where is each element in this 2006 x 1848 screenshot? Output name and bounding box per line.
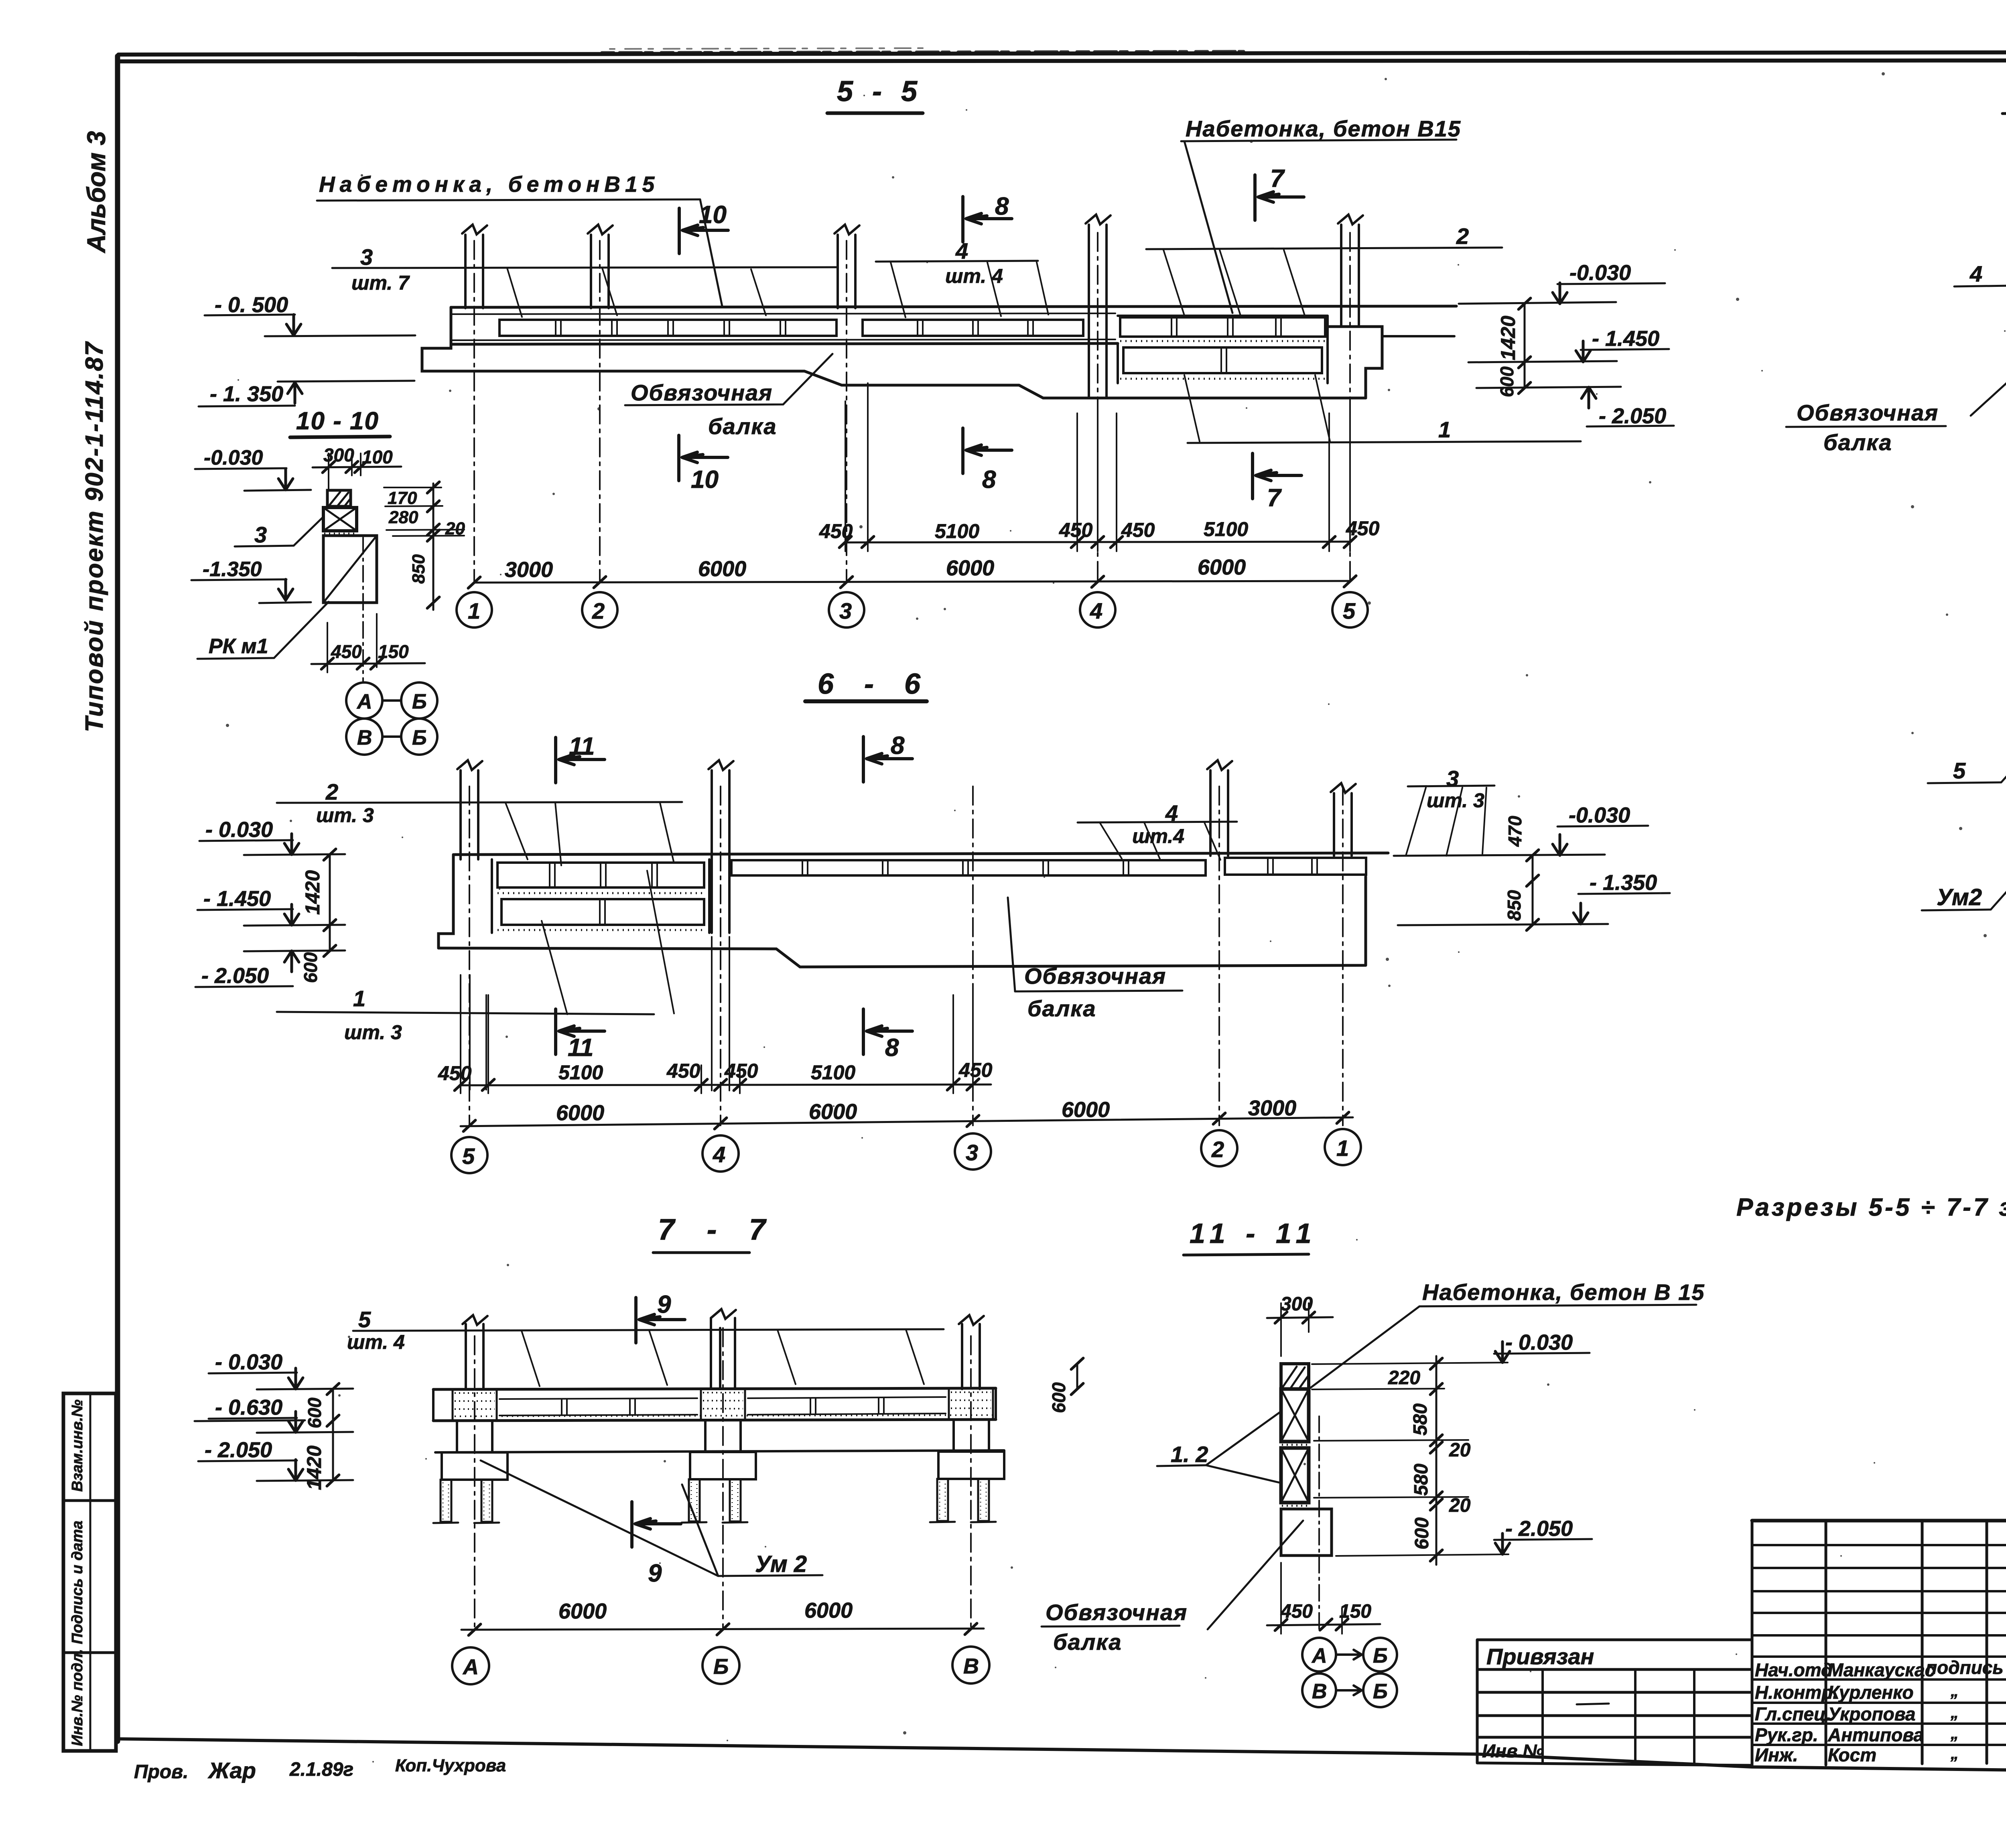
column head blocks in slab [453, 1388, 993, 1421]
axis bubbles А Б / В Б (11-11) [1302, 1638, 1336, 1671]
svg-text:1: 1 [1438, 417, 1451, 442]
svg-text:шт. 4: шт. 4 [945, 265, 1003, 287]
svg-text:Альбом 3: Альбом 3 [82, 131, 111, 254]
svg-text:11 - 11: 11 - 11 [1190, 1218, 1318, 1249]
grid bubble 1 (6-6) [1325, 1129, 1361, 1165]
grid axis line 2 [599, 241, 601, 582]
level mark -1.350 [210, 382, 283, 406]
title 5-5 [837, 75, 923, 108]
column on axis 5 [1341, 225, 1359, 327]
svg-text:Набетонка, бетонВ15: Набетонка, бетонВ15 [319, 172, 659, 197]
grid axis line 4 [1097, 233, 1098, 582]
section mark 9 top [636, 1298, 685, 1343]
slab top flange line [451, 313, 1115, 314]
svg-text:Подпись и дата: Подпись и дата [69, 1521, 86, 1644]
title 10-10 [296, 407, 379, 435]
svg-text:450: 450 [1059, 519, 1093, 541]
svg-text:10: 10 [691, 466, 719, 493]
svg-text:Коп.Чухрова: Коп.Чухрова [395, 1756, 506, 1775]
svg-text:Укропова: Укропова [1828, 1704, 1915, 1724]
svg-text:8: 8 [885, 1034, 899, 1062]
svg-text:600: 600 [1411, 1517, 1433, 1549]
svg-text:600: 600 [1496, 366, 1517, 397]
footing slab axis Б [690, 1452, 756, 1479]
vertical dim 850 right 6-6 [1532, 881, 1534, 925]
svg-text:- 0.630: - 0.630 [215, 1395, 282, 1420]
column on axis 5 [461, 770, 478, 859]
grid axis line 5 [1349, 233, 1351, 582]
dim 300/100 top [323, 445, 393, 467]
svg-text:4: 4 [1969, 261, 1982, 286]
svg-text:Инв.№: Инв.№ [1482, 1740, 1544, 1761]
dim row 6000/6000 (7-7) [461, 1629, 984, 1630]
svg-text:- 0.030: - 0.030 [205, 818, 273, 842]
svg-text:470: 470 [1504, 816, 1525, 847]
pos.3 leader with count [1427, 766, 1484, 812]
svg-text:Ум2: Ум2 [1937, 884, 1982, 910]
svg-text:10 - 10: 10 - 10 [296, 407, 379, 435]
svg-text:7: 7 [1267, 484, 1282, 512]
svg-text:А: А [1311, 1644, 1327, 1667]
svg-text:3000: 3000 [1248, 1096, 1296, 1120]
pos.2 leader [1456, 223, 1469, 249]
pos.4 label (8-8) [1969, 261, 1982, 286]
svg-text:5: 5 [1953, 758, 1966, 783]
svg-text:балка: балка [708, 414, 777, 439]
vertical dim 1420 (7-7) [332, 1421, 334, 1480]
grid axis 1 [1342, 786, 1344, 1125]
svg-text:балка: балка [1027, 996, 1096, 1021]
svg-text:Б: Б [412, 690, 427, 713]
svg-text:Обвязочная: Обвязочная [1046, 1600, 1188, 1625]
svg-text:6000: 6000 [556, 1101, 604, 1125]
grid bubble 3 (6-6) [955, 1133, 991, 1170]
piles axis В [937, 1479, 948, 1521]
grid bubble А (7-7) [452, 1647, 489, 1684]
dim 300 (11-11) [1281, 1294, 1313, 1315]
slab top line 7-7 [433, 1388, 996, 1389]
section mark 11 bottom [556, 1009, 605, 1054]
bay 4-5 bottom stipple [1120, 378, 1326, 380]
svg-text:1: 1 [468, 598, 480, 623]
topping hatch block (10-10) [327, 490, 351, 506]
svg-text:Нач.отд: Нач.отд [1755, 1659, 1832, 1680]
grid axis 2 [1218, 786, 1220, 1125]
column on axis 1 [1334, 793, 1352, 856]
svg-text:шт.4: шт.4 [1132, 825, 1184, 847]
thin slab band bays 4-3-2 [731, 860, 1206, 875]
svg-text:3: 3 [254, 522, 267, 547]
vertical dim 600 (7-7) [332, 1389, 334, 1421]
svg-text:В: В [1312, 1680, 1327, 1703]
svg-text:2: 2 [1456, 223, 1469, 249]
title 6-6 [818, 668, 932, 700]
svg-text:„: „ [1950, 1704, 1959, 1722]
svg-text:- 0.030: - 0.030 [1505, 1330, 1573, 1355]
section mark 8 bottom [863, 1009, 912, 1054]
section mark 8 bottom [963, 428, 1012, 473]
grid axis 5 [469, 786, 470, 1125]
slab top line [455, 853, 1388, 855]
svg-text:балка: балка [1053, 1629, 1122, 1655]
svg-text:„: „ [1950, 1725, 1959, 1742]
beam outline (обвязочная балка) [422, 307, 1366, 398]
svg-text:1: 1 [1336, 1135, 1349, 1161]
beam outline 6-6 [439, 877, 1366, 967]
footing slab axis В [938, 1452, 1004, 1479]
bay 5-4 inner hollow slabs [501, 899, 704, 925]
svg-text:3: 3 [1446, 766, 1459, 791]
svg-text:5 - 5: 5 - 5 [837, 75, 923, 108]
grid bubble 2 [582, 592, 617, 628]
label Обвязочная балка [631, 380, 777, 439]
base beam block (11-11) [1281, 1509, 1332, 1556]
svg-text:6000: 6000 [1198, 555, 1246, 579]
slab band 7-7 [433, 1420, 996, 1421]
level mark -0.500 [215, 293, 288, 317]
bay 4-5 stipple under row [1120, 340, 1326, 342]
svg-text:- 2.050: - 2.050 [1505, 1517, 1573, 1541]
svg-text:В: В [963, 1654, 979, 1678]
vertical dim 1420 left 6-6 [329, 855, 331, 925]
svg-text:- 1.450: - 1.450 [1592, 327, 1659, 351]
svg-text:Набетонка, бетон В15: Набетонка, бетон В15 [1186, 116, 1461, 141]
svg-text:В: В [357, 726, 372, 749]
svg-text:2: 2 [1211, 1137, 1224, 1162]
grid bubble 4 (6-6) [703, 1135, 739, 1172]
svg-text:5100: 5100 [558, 1061, 603, 1084]
frame left border [115, 56, 120, 1741]
column on axis 2 [591, 235, 609, 308]
binding table box (Привязан) [1477, 1640, 1752, 1765]
pos.5 leader with count [347, 1307, 405, 1353]
dim 600 left (11-11) [1076, 1364, 1078, 1389]
grid axis line 1 [473, 241, 475, 582]
svg-text:Б: Б [1373, 1644, 1388, 1667]
svg-text:Обвязочная: Обвязочная [631, 380, 773, 405]
svg-text:6000: 6000 [809, 1100, 857, 1124]
svg-text:220: 220 [1388, 1367, 1420, 1389]
level mark -0.030 right [1569, 261, 1631, 285]
svg-text:3: 3 [360, 244, 373, 270]
svg-text:7: 7 [1270, 165, 1285, 193]
svg-text:20: 20 [445, 519, 465, 538]
svg-text:„: „ [1950, 1682, 1959, 1700]
hollow cells between column heads [499, 1398, 697, 1415]
grid bubble Б (7-7) [703, 1647, 739, 1684]
svg-text:1420: 1420 [303, 1446, 325, 1490]
svg-text:6 - 6: 6 - 6 [818, 668, 932, 700]
svg-text:450: 450 [724, 1060, 758, 1082]
side table box [63, 1393, 116, 1751]
bay 5-4 stipple [497, 892, 706, 894]
svg-text:600: 600 [300, 952, 321, 983]
section mark 8 top [863, 737, 912, 782]
svg-text:11: 11 [568, 1034, 593, 1062]
pos.3 leader with count [351, 244, 410, 294]
grid bubble 5 (6-6) [451, 1137, 487, 1173]
top border scan smudge [602, 51, 1244, 53]
svg-text:5: 5 [1343, 598, 1356, 623]
grid bubble В (7-7) [952, 1647, 989, 1684]
grid bubble 3 [829, 592, 864, 628]
dim row 3000/6000/6000/6000 [474, 581, 1350, 583]
pos.5 label (9-9) [1953, 758, 1966, 783]
section mark 9 bottom [632, 1502, 681, 1547]
svg-text:-0.030: -0.030 [204, 446, 263, 469]
vertical dim 470 right 6-6 [1532, 855, 1534, 881]
label Обвязочная балка (8-8) [1797, 400, 1939, 455]
level -0.030 (11-11) [1505, 1330, 1573, 1355]
svg-text:450: 450 [1121, 519, 1155, 541]
svg-text:1420: 1420 [1497, 316, 1519, 360]
crossed beam block (10-10) [323, 508, 357, 531]
level -2.050 left 6-6 [201, 964, 269, 988]
svg-text:подпись: подпись [1926, 1657, 2004, 1678]
svg-text:450: 450 [819, 520, 853, 542]
svg-text:Обвязочная: Обвязочная [1797, 400, 1939, 425]
svg-text:- 0. 500: - 0. 500 [215, 293, 288, 317]
level mark -1.450 right [1592, 327, 1659, 351]
svg-text:шт. 7: шт. 7 [351, 272, 410, 294]
svg-text:600: 600 [304, 1397, 325, 1428]
footing pedestal axis В [954, 1420, 989, 1452]
signature table grid [1752, 1521, 2006, 1766]
footing pedestal axis А [457, 1421, 492, 1452]
stipple joint (10-10) [324, 533, 356, 535]
svg-text:4: 4 [713, 1142, 725, 1167]
crossed block upper (11-11) [1281, 1389, 1309, 1442]
dim row 450/5100/450 450/5100/450 [845, 542, 1350, 542]
svg-text:- 0.030: - 0.030 [215, 1350, 282, 1374]
svg-text:450: 450 [1346, 517, 1380, 540]
level -2.050 (7-7) [205, 1438, 272, 1462]
axis dashed (11-11) [1318, 1416, 1320, 1633]
dim row 6000/6000/6000/3000 (6-6) [461, 1117, 1353, 1126]
svg-text:6000: 6000 [804, 1598, 853, 1623]
svg-text:- 2.050: - 2.050 [205, 1438, 272, 1462]
pos.1.2 label (11-11) [1171, 1442, 1208, 1467]
right pier under axis 5 [1328, 327, 1382, 398]
thin slab band bay 2-1 [1225, 858, 1366, 875]
svg-text:3: 3 [966, 1140, 978, 1165]
column on axis 4 [712, 770, 729, 933]
svg-text:шт. 3: шт. 3 [1427, 789, 1484, 812]
svg-text:5: 5 [462, 1143, 475, 1169]
label РКм1 (10-10) [209, 635, 268, 658]
level -0.030 left 6-6 [205, 818, 273, 842]
svg-text:Кост: Кост [1828, 1744, 1876, 1765]
section mark 8 top [963, 197, 1012, 242]
svg-text:2.1.89г: 2.1.89г [289, 1759, 353, 1780]
column above slab axis А [466, 1324, 483, 1389]
pos.4 leader with count [945, 238, 1003, 287]
svg-text:280: 280 [388, 508, 418, 527]
level -0.030 (10-10) [204, 446, 263, 469]
vertical dim 600 left 6-6 [329, 925, 331, 951]
level mark -2.050 right [1599, 404, 1666, 428]
svg-text:11: 11 [569, 733, 595, 760]
grid axis 4 [720, 786, 721, 1125]
topping hatch block (11-11) [1281, 1364, 1309, 1389]
pos.4 leader with count [1132, 800, 1184, 847]
dim chain right 220/580/20/580/20/600 (11-11) [1435, 1356, 1437, 1565]
svg-text:-0.030: -0.030 [1569, 261, 1631, 285]
label Набетонка бетон В15 (over bay 4-5) [1186, 116, 1461, 141]
pos.1 leader [1438, 417, 1451, 442]
svg-text:6000: 6000 [946, 556, 994, 580]
svg-text:-0.030: -0.030 [1569, 803, 1630, 827]
grid bubble 1 [457, 592, 492, 628]
svg-text:5100: 5100 [811, 1061, 855, 1084]
svg-text:5100: 5100 [1204, 518, 1248, 540]
label Набетонка бетон В15 (11-11) [1422, 1279, 1705, 1305]
svg-text:Пров.: Пров. [134, 1761, 189, 1783]
grid bubble 2 (6-6) [1201, 1130, 1237, 1166]
axis dashed of detail (10-10) [362, 538, 364, 681]
grid axis 3 [972, 786, 974, 1125]
label Ум2 (9-9) [1937, 884, 1982, 910]
svg-text:450: 450 [331, 641, 362, 662]
svg-text:3: 3 [839, 598, 852, 623]
svg-text:Антипова: Антипова [1827, 1724, 1924, 1745]
svg-text:Курленко: Курленко [1828, 1682, 1914, 1703]
recessed bay 5-4 box outer [492, 859, 709, 933]
level -2.050 (11-11) [1505, 1517, 1573, 1541]
svg-text:балка: балка [1823, 430, 1892, 455]
footing pedestal axis Б [705, 1420, 741, 1452]
slab soffit / beam top [451, 343, 1118, 344]
level -1.450 left 6-6 [203, 887, 271, 911]
grid axis А [474, 1336, 475, 1630]
svg-text:1420: 1420 [301, 870, 324, 915]
svg-text:- 2.050: - 2.050 [201, 964, 269, 988]
svg-text:850: 850 [1504, 890, 1525, 921]
svg-text:580: 580 [1411, 1464, 1432, 1496]
label Набетонка бетон В15 (left) [319, 172, 659, 197]
footing slab axis А [442, 1452, 508, 1480]
stipple joint (11-11) [1282, 1444, 1308, 1446]
svg-text:Набетонка, бетон В 15: Набетонка, бетон В 15 [1422, 1279, 1705, 1305]
label Обвязочная балка (11-11) [1046, 1600, 1188, 1655]
svg-text:шт. 4: шт. 4 [347, 1331, 405, 1353]
level -0.030 right 6-6 [1569, 803, 1630, 827]
dim chain right: 170/280/20/850 (10-10) [432, 483, 434, 610]
crossed block lower (11-11) [1281, 1448, 1309, 1503]
svg-text:Инв.№ подл.: Инв.№ подл. [69, 1649, 86, 1746]
bay 4-5 inner hollow slabs [1123, 347, 1322, 373]
svg-text:1. 2: 1. 2 [1171, 1442, 1208, 1467]
svg-text:Гл.спец.: Гл.спец. [1755, 1704, 1831, 1724]
axis bubbles А Б / В Б (10-10) [346, 682, 382, 719]
level -0.630 (7-7) [215, 1395, 282, 1420]
dim 450/150 bottom (10-10) [331, 641, 409, 662]
column on axis 2 [1210, 770, 1228, 856]
hollow-core slab band bay 3-4 [863, 320, 1083, 336]
svg-text:2: 2 [325, 779, 338, 804]
svg-text:шт. 3: шт. 3 [316, 804, 374, 827]
svg-text:5: 5 [358, 1307, 371, 1332]
label Обвязочная балка 6-6 [1024, 963, 1166, 1021]
svg-text:850: 850 [409, 554, 428, 584]
svg-text:9: 9 [657, 1291, 671, 1318]
grid axis В [970, 1336, 972, 1630]
level -1.350 right 6-6 [1590, 871, 1657, 895]
hollow-core slab band bay 1-3 [499, 320, 837, 336]
dim row 450/5100/450 450/5100/450 (6-6) [461, 1084, 991, 1085]
svg-text:шт. 3: шт. 3 [344, 1021, 402, 1044]
dim 450/150 (11-11) [1280, 1601, 1371, 1622]
grid bubble 4 [1080, 592, 1115, 628]
section mark 7 top [1255, 175, 1304, 220]
svg-text:6000: 6000 [698, 557, 746, 581]
bay 5-4 bottom stipple [497, 929, 706, 931]
svg-text:2: 2 [592, 598, 605, 623]
svg-text:580: 580 [1410, 1403, 1431, 1436]
svg-text:100: 100 [362, 447, 393, 467]
title 7-7 [658, 1213, 778, 1246]
svg-text:10: 10 [699, 201, 727, 229]
footing top continuous line (7-7) [435, 1450, 1004, 1452]
section mark 7 bottom [1253, 453, 1301, 499]
svg-text:-1.350: -1.350 [203, 558, 262, 581]
dash mark in binding table [1577, 1704, 1609, 1704]
svg-text:Взам.инв.№: Взам.инв.№ [69, 1399, 86, 1492]
svg-text:- 1. 350: - 1. 350 [210, 382, 283, 406]
svg-text:450: 450 [1280, 1601, 1313, 1622]
note sheet reference [1736, 1194, 2006, 1221]
vertical dim 1420 right [1524, 304, 1526, 362]
svg-text:Н.контр.: Н.контр. [1755, 1682, 1838, 1703]
stamp outer top line [1752, 1519, 2006, 1523]
level -0.030 (7-7) [215, 1350, 282, 1374]
svg-text:- 2.050: - 2.050 [1599, 404, 1666, 428]
bay 4-5 precast row on top [1120, 317, 1325, 337]
svg-text:20: 20 [1449, 1440, 1471, 1461]
section mark 10 top [679, 208, 728, 254]
svg-text:А: А [356, 690, 372, 713]
piles axis А [441, 1480, 451, 1522]
svg-text:170: 170 [388, 488, 417, 508]
column on axis 1 [465, 235, 483, 308]
grid axis Б [722, 1328, 724, 1630]
vertical dim 600 right [1524, 362, 1526, 388]
section mark 11 top [556, 737, 605, 783]
pos.1 leader with count (6-6) [344, 986, 402, 1044]
svg-text:Типовой проект 902-1-114.87: Типовой проект 902-1-114.87 [81, 341, 108, 732]
svg-text:6000: 6000 [558, 1599, 607, 1623]
left pier on axis 5 [439, 855, 453, 948]
svg-text:Инж.: Инж. [1755, 1744, 1798, 1765]
svg-text:Рук.гр.: Рук.гр. [1755, 1724, 1818, 1745]
frame bottom border [118, 1739, 2006, 1770]
grid bubble 5 [1332, 592, 1368, 628]
bay 5-4 precast row [497, 863, 704, 887]
svg-text:Ум 2: Ум 2 [755, 1551, 807, 1577]
svg-text:Разрезы 5-5 ÷ 7-7 замаркирован: Разрезы 5-5 ÷ 7-7 замаркированы на листе… [1736, 1194, 2006, 1221]
svg-text:3000: 3000 [505, 558, 553, 582]
svg-text:РК м1: РК м1 [209, 635, 268, 658]
svg-text:8: 8 [995, 193, 1009, 220]
title 11-11 [1190, 1218, 1318, 1249]
svg-text:Б: Б [1373, 1680, 1388, 1703]
section mark 10 bottom [679, 435, 728, 481]
svg-text:450: 450 [666, 1060, 700, 1082]
svg-text:А: А [462, 1655, 479, 1679]
svg-text:Манкаускас: Манкаускас [1828, 1659, 1935, 1680]
column above slab axis Б [711, 1318, 735, 1389]
frame top border [118, 52, 2006, 61]
